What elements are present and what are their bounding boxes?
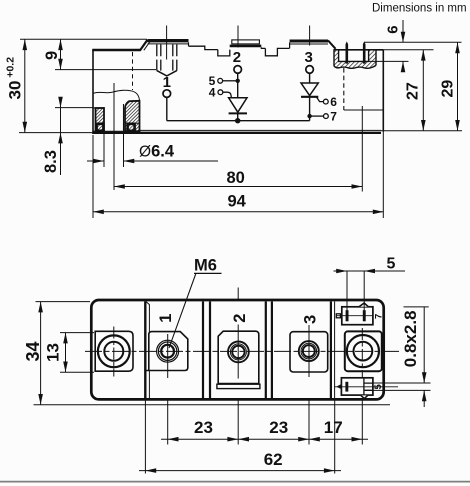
- hidden line from aux connector: [343, 68, 345, 110]
- module top edge left: [92, 49, 141, 52]
- centerline stub above terminal 2: [237, 288, 239, 301]
- wire aux to right wall: [344, 109, 384, 111]
- svg-text:6: 6: [330, 95, 337, 109]
- wire V2 gate to pin 6: [316, 97, 323, 102]
- pin 7 circle: [324, 114, 329, 119]
- junction node bus T2: [235, 118, 240, 123]
- arrow 27 up: [421, 50, 426, 61]
- arrow 80 right: [352, 184, 363, 189]
- wire pin 7: [310, 115, 324, 117]
- dim line 13: [65, 333, 67, 373]
- ext lines hole dia: [104, 132, 124, 168]
- aux faston 5 housing: [341, 378, 373, 395]
- arrow 80 left: [114, 184, 125, 189]
- module body left edge: [92, 50, 94, 134]
- right mounting hole outer: [347, 335, 379, 367]
- arrow dia left: [124, 159, 135, 164]
- svg-text:27: 27: [405, 82, 422, 100]
- dim line 9: [60, 39, 62, 69]
- dim line 94: [93, 211, 384, 213]
- wire terminal 3 down: [309, 73, 311, 83]
- ext line top overall: [20, 38, 147, 40]
- ext 34 top: [36, 301, 91, 303]
- svg-text:0.8x2.8: 0.8x2.8: [401, 310, 420, 367]
- notch 2: [265, 48, 289, 55]
- svg-text:62: 62: [264, 450, 283, 469]
- thyristor V1 triangle: [229, 98, 247, 112]
- arrow 13 down: [63, 362, 68, 373]
- arrow 9 down: [58, 59, 63, 70]
- terminal 1 cover slant inner: [144, 42, 150, 51]
- wire pin 4 gate lead: [223, 92, 232, 98]
- arrow 30 down: [23, 122, 28, 133]
- left mounting pad: [95, 331, 133, 371]
- arrows bottom view: [38, 269, 426, 473]
- module body bottom line: [136, 129, 381, 131]
- centerline horizontal plan: [85, 350, 399, 352]
- arrow 62 left: [145, 468, 156, 473]
- svg-text:6: 6: [384, 25, 401, 33]
- arrow 8.3 down to top line: [58, 97, 63, 108]
- junction node anode T2: [236, 79, 240, 83]
- svg-text:80: 80: [227, 169, 245, 187]
- svg-text:1: 1: [157, 314, 175, 323]
- arrow 13 up: [63, 333, 68, 344]
- terminal screw M1: [157, 44, 177, 76]
- chain ext terminal 2: [237, 401, 239, 445]
- node 1 terminal circle: [163, 90, 171, 98]
- terminal 1 cover slant: [140, 40, 148, 51]
- aux faston 5 latch arrow: [336, 384, 341, 389]
- wire pin 5: [223, 80, 238, 82]
- junction node pin 7: [307, 114, 311, 118]
- terminal 2 centerline: [237, 26, 239, 48]
- bottom rule: [0, 481, 470, 483]
- terminal 1 cover plate: [148, 39, 189, 42]
- dim line 5: [334, 270, 406, 272]
- arrow 0.8 up: [422, 390, 427, 401]
- leader hole dia: [87, 160, 218, 162]
- dim line 8.3 upper tail: [60, 97, 62, 133]
- ext 94 left: [92, 135, 94, 218]
- svg-text:2: 2: [231, 314, 249, 323]
- dim line 8.3 lower tail: [60, 133, 62, 175]
- svg-text:2: 2: [233, 49, 241, 66]
- dim line 34: [40, 302, 42, 405]
- bushing right column: [125, 101, 140, 131]
- arrow 5 right: [336, 269, 347, 274]
- bushing left column: [96, 108, 105, 131]
- arrow 29 down: [455, 120, 460, 131]
- ext 0.8x2.8 blade: [373, 383, 431, 390]
- aux faston 7 blade left: [346, 310, 349, 321]
- aux 5 centerline: [334, 386, 398, 388]
- bushing bottom line: [93, 130, 140, 132]
- chain ext terminal 1: [167, 401, 169, 445]
- module outline plan: [91, 300, 383, 399]
- arrow chain left end: [168, 437, 179, 442]
- ext 13 top: [60, 332, 94, 334]
- arrow 94 left: [93, 210, 104, 215]
- ext 94 right: [382, 132, 384, 219]
- terminal 1 rings: [157, 340, 179, 362]
- svg-text:7: 7: [330, 110, 337, 124]
- M6 leader: [169, 273, 196, 348]
- arrows top view: [23, 32, 460, 214]
- wire terminal 1 down: [166, 97, 168, 120]
- hole centerline: [113, 83, 115, 190]
- ext 34 bottom / mounting plane: [34, 404, 391, 406]
- centerline left hole: [113, 327, 115, 377]
- chain ext terminal 3: [308, 401, 310, 445]
- terminal 2 pad: [218, 331, 259, 383]
- M6 underline: [194, 272, 222, 274]
- svg-text:8.3: 8.3: [42, 150, 60, 173]
- dim line 29: [457, 43, 459, 131]
- svg-text:Ø6.4: Ø6.4: [139, 143, 175, 161]
- svg-text:M6: M6: [194, 257, 217, 275]
- terminal 1 centerline: [166, 26, 168, 60]
- arrow 6 down: [401, 32, 406, 43]
- terminal 3 pad: [290, 332, 328, 372]
- top step right of cover 1: [189, 46, 218, 49]
- svg-text:34: 34: [23, 341, 43, 361]
- svg-text:23: 23: [269, 418, 288, 437]
- ext 62 left: [144, 401, 146, 474]
- aux faston 7 blade right: [363, 310, 366, 321]
- thyristor V2 triangle: [301, 83, 318, 96]
- right hole surround: [345, 331, 382, 371]
- notch 1: [218, 50, 230, 56]
- wire terminal 2 down: [237, 73, 239, 98]
- aux faston 5 blade: [345, 382, 348, 392]
- node 3 terminal circle: [306, 66, 314, 74]
- thyristor V2 cathode bar: [301, 96, 318, 98]
- aux pin upper right: [363, 41, 366, 63]
- wire V1 cathode down: [237, 113, 239, 120]
- centerline right hole: [361, 328, 363, 378]
- bevel at separator top: [146, 301, 150, 305]
- svg-text:13: 13: [44, 343, 63, 362]
- centerline terminal 1: [167, 334, 169, 378]
- arrow 5 left: [364, 269, 375, 274]
- aux pin upper left: [346, 41, 349, 63]
- aux faston 5 notch: [361, 395, 368, 398]
- terminal 3 rings: [299, 341, 319, 361]
- bushing flange divider right: [125, 122, 140, 124]
- dim line 6: [402, 20, 404, 71]
- left cut-away wavy line: [93, 90, 140, 100]
- terminal 3 cover right slant: [328, 40, 336, 48]
- terminal 2 rings: [228, 342, 249, 363]
- arrow 29 up: [455, 43, 460, 54]
- ext line baseplate bottom left: [19, 132, 92, 134]
- svg-text:4: 4: [209, 85, 216, 99]
- wire V2 cathode down: [309, 97, 311, 121]
- bushing top line to module edge: [93, 107, 104, 109]
- right mounting hole inner: [354, 342, 373, 361]
- dim line 27: [422, 50, 424, 131]
- aux faston 7 guide bump: [359, 303, 368, 307]
- left mounting hole inner: [104, 342, 123, 361]
- module bottom baseplate: [92, 132, 381, 134]
- terminal 3 centerline: [309, 26, 311, 46]
- arrow 27 down: [421, 120, 426, 131]
- module top edge right: [334, 49, 383, 51]
- separator left of section 1: [144, 302, 146, 399]
- pin 6 circle: [323, 99, 328, 104]
- chain ext right hole: [361, 400, 363, 445]
- node 2 terminal circle: [234, 66, 242, 74]
- centerline terminal 3: [308, 325, 310, 377]
- svg-text:94: 94: [228, 192, 247, 210]
- svg-text:1: 1: [163, 74, 171, 91]
- ext line 8.3 top: [55, 107, 93, 109]
- bushing flange divider left: [96, 122, 105, 124]
- arrow 94 right: [373, 210, 384, 215]
- svg-text:7: 7: [373, 314, 384, 319]
- ext 0.8x2.8 top: [404, 306, 429, 308]
- hidden edge of recess: [132, 52, 134, 90]
- arrow 0.8 down: [422, 372, 427, 383]
- svg-text:23: 23: [194, 418, 213, 437]
- svg-text:9: 9: [43, 51, 61, 60]
- separator sections 2-3: [266, 302, 272, 399]
- module right edge: [382, 50, 384, 132]
- pin 4 circle: [218, 90, 223, 95]
- arrow 62 right: [324, 468, 335, 473]
- thyristor V1 cathode bar: [229, 112, 247, 114]
- svg-text:3: 3: [301, 315, 319, 324]
- svg-text:3: 3: [305, 49, 313, 66]
- terminal 1 pad: [145, 332, 187, 371]
- separator sections 1-2: [203, 302, 210, 399]
- left mounting hole outer: [98, 335, 130, 367]
- ext 13 bottom: [60, 371, 94, 373]
- ext 80 right: [361, 106, 363, 192]
- svg-text:17: 17: [324, 418, 343, 437]
- svg-text:5: 5: [387, 256, 396, 273]
- separator section 3 to end: [330, 302, 332, 399]
- wire bottom bus: [167, 120, 310, 122]
- dim line 30: [24, 39, 26, 132]
- centerline terminal 2: [237, 325, 239, 379]
- bushing hole right edge: [123, 104, 125, 131]
- arrow 34 down: [38, 394, 43, 405]
- aux connector cavity (section): [334, 50, 376, 69]
- svg-text:29: 29: [439, 80, 456, 98]
- dim line 62: [139, 470, 341, 472]
- ext cavity floor: [369, 60, 409, 62]
- arrow 6 up: [401, 61, 406, 72]
- terminal 3 cover plate: [290, 40, 328, 43]
- dim line 23 23 17: [161, 438, 368, 440]
- ext 62 right: [334, 401, 336, 474]
- aux faston 7 latch: [336, 314, 340, 318]
- ext pins top: [364, 41, 462, 43]
- dim line 80: [114, 186, 362, 188]
- arrow 30 up: [23, 39, 28, 50]
- arrow chain right end: [352, 437, 363, 442]
- aux 7 centerline: [336, 315, 373, 317]
- ext module top right: [376, 49, 434, 51]
- pin 5 circle: [218, 78, 223, 83]
- ext blades 5 dim: [347, 271, 364, 311]
- arrow 9 up: [58, 39, 63, 50]
- arrow 8.3 up to bottom line: [58, 133, 63, 144]
- terminal 2 pad skirt: [217, 384, 260, 388]
- arrow pair at terminal 3: [298, 437, 320, 442]
- arrow dia right: [93, 159, 104, 164]
- aux faston 5 slot: [364, 378, 373, 395]
- arrow 34 up: [38, 302, 43, 313]
- dim line 0.8x2.8: [423, 307, 425, 407]
- ext line 9 bottom: [55, 69, 156, 71]
- bushing left foot: [97, 124, 104, 131]
- bushing right foot: [128, 124, 135, 131]
- ext module bottom right: [381, 130, 462, 132]
- arrow pair at terminal 2: [227, 437, 249, 442]
- svg-text:Dimensions in mm: Dimensions in mm: [372, 3, 467, 15]
- terminal 2 cover plate: [232, 40, 260, 44]
- aux faston 7 housing: [342, 307, 373, 325]
